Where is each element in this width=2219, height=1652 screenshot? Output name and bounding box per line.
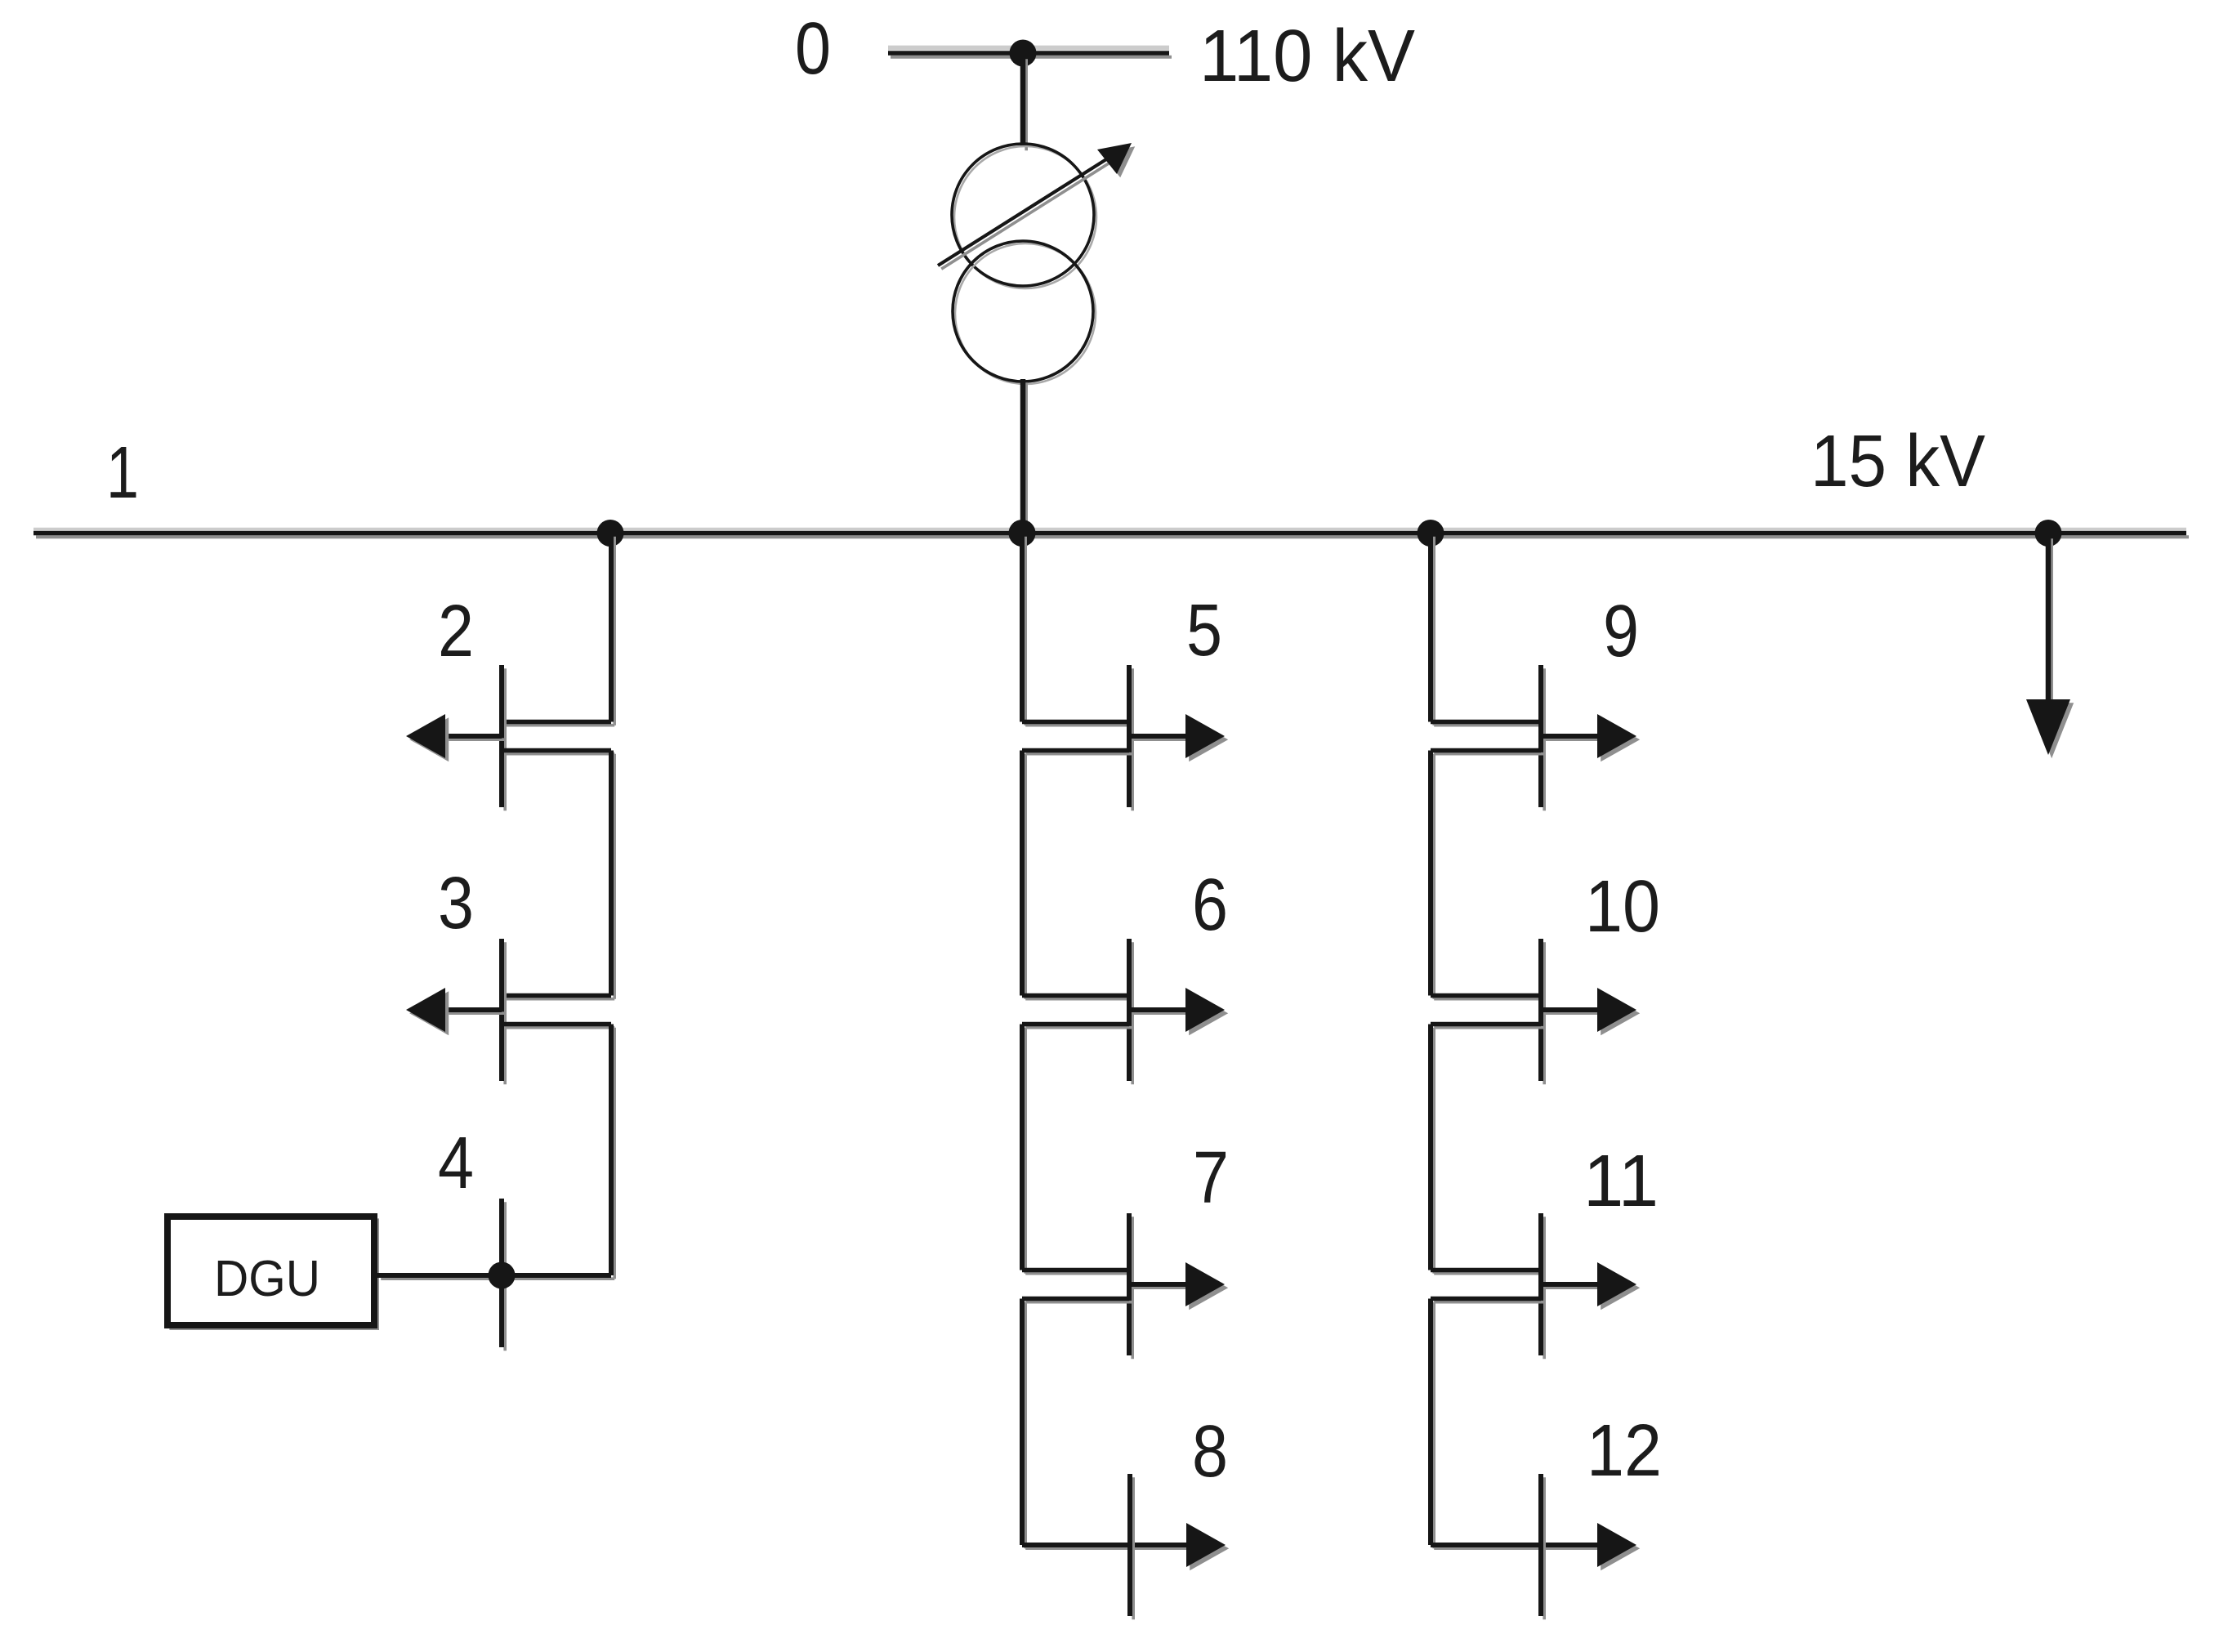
bus 9 inlet connector	[1434, 724, 1544, 727]
bus 2 inlet connector	[505, 724, 614, 727]
svg-text:8: 8	[1192, 1411, 1228, 1493]
bus 12 wire/arrow through bus (load arrow)	[1434, 1547, 1601, 1550]
bus 9 outlet connector	[1434, 752, 1544, 756]
bus 5 busbar	[1131, 668, 1134, 810]
transformer T1 LV winding circle	[955, 243, 1096, 384]
DGU box	[171, 1220, 377, 1328]
wire: bus 10 to bus 11	[1432, 1028, 1435, 1274]
wire: feeder A into bus 4	[505, 1277, 614, 1280]
bus 8 wire/arrow through bus (load arrow)	[1025, 1547, 1190, 1550]
bus 11 inlet connector	[1434, 1272, 1544, 1275]
bus 12 busbar	[1543, 1477, 1546, 1619]
bus 3 load arrow	[449, 1011, 505, 1015]
bus 9 load arrow	[1544, 738, 1601, 741]
junction dot: feeder A tap	[597, 520, 624, 547]
wire: bus 6 to bus 7	[1024, 1028, 1027, 1274]
wire: bus 11 to bus 12	[1432, 1302, 1435, 1549]
bus 7 outlet connector	[1025, 1301, 1132, 1304]
node 1 bus (15 kV backbone)	[33, 528, 2186, 530]
bus 11 load arrow	[1544, 1286, 1601, 1289]
svg-text:11: 11	[1583, 1141, 1659, 1222]
transformer T1 tap-changer arrow	[941, 159, 1116, 269]
svg-text:110 kV: 110 kV	[1199, 16, 1415, 97]
bus 10 load arrow	[1544, 1011, 1601, 1015]
wire: node 1 to bus 2	[613, 537, 616, 726]
svg-text:15 kV: 15 kV	[1810, 421, 1985, 502]
junction dot: node 0 / transformer HV	[1010, 40, 1037, 67]
bus 4 busbar	[503, 1202, 507, 1351]
svg-text:5: 5	[1186, 590, 1222, 672]
bus 5 load arrow	[1132, 738, 1189, 741]
bus 8 busbar	[1132, 1477, 1135, 1619]
bus 5 outlet connector	[1025, 752, 1132, 756]
bus 10 inlet connector	[1434, 998, 1544, 1001]
bus 6 inlet connector	[1025, 998, 1132, 1001]
svg-text:9: 9	[1603, 591, 1639, 672]
node 0 bus (110 kV busbar)	[888, 46, 1169, 51]
wire: node 1 to bus 5	[1024, 537, 1027, 726]
bus 11 outlet connector	[1434, 1301, 1544, 1304]
transformer T1 HV winding circle	[954, 146, 1096, 288]
svg-text:10: 10	[1585, 866, 1660, 948]
bus 2 load arrow	[449, 738, 505, 741]
bus 6 outlet connector	[1025, 1026, 1132, 1029]
wire: bus 9 to bus 10	[1432, 754, 1435, 999]
bus 6 load arrow	[1132, 1011, 1189, 1015]
bus 7 load arrow	[1132, 1286, 1189, 1289]
svg-text:7: 7	[1193, 1137, 1229, 1219]
svg-text:1: 1	[106, 432, 139, 514]
junction dot: transformer LV / feeder B tap	[1009, 520, 1036, 547]
wire: bus 7 to bus 8	[1024, 1302, 1027, 1549]
svg-text:12: 12	[1587, 1410, 1662, 1492]
wire: transformer T1 LV to node 1 bus	[1025, 382, 1028, 536]
bus 2 busbar	[503, 668, 507, 810]
bus 3 busbar	[503, 942, 507, 1084]
junction dot at bus 4 (DGU connection)	[489, 1262, 516, 1289]
bus 6 busbar	[1131, 942, 1134, 1084]
wire: bus 5 to bus 6	[1024, 754, 1027, 999]
bus 11 busbar	[1543, 1217, 1546, 1359]
svg-text:2: 2	[438, 591, 474, 672]
load arrow at end of node 1	[2050, 538, 2053, 706]
bus 3 inlet connector	[505, 998, 614, 1001]
svg-text:0: 0	[795, 8, 831, 90]
bus 2 outlet connector	[505, 752, 614, 756]
junction dot: remote load tap	[2035, 520, 2062, 547]
bus 7 busbar	[1131, 1217, 1134, 1359]
wire: node 0 to transformer T1 HV	[1025, 59, 1028, 150]
wire: bus 3 to bus 4	[613, 1028, 616, 1279]
wire: DGU to bus 4	[381, 1277, 505, 1280]
bus 10 busbar	[1543, 942, 1546, 1084]
bus 9 busbar	[1543, 668, 1546, 810]
svg-text:3: 3	[438, 863, 474, 944]
bus 3 outlet connector	[505, 1026, 614, 1029]
wire: node 1 to bus 9	[1432, 537, 1435, 726]
junction dot: feeder C tap	[1418, 520, 1444, 547]
svg-text:6: 6	[1192, 864, 1228, 946]
wire: bus 2 to bus 3	[613, 754, 616, 999]
svg-text:DGU: DGU	[214, 1251, 320, 1307]
bus 7 inlet connector	[1025, 1272, 1132, 1275]
bus 5 inlet connector	[1025, 724, 1132, 727]
svg-text:4: 4	[438, 1123, 474, 1204]
bus 10 outlet connector	[1434, 1026, 1544, 1029]
